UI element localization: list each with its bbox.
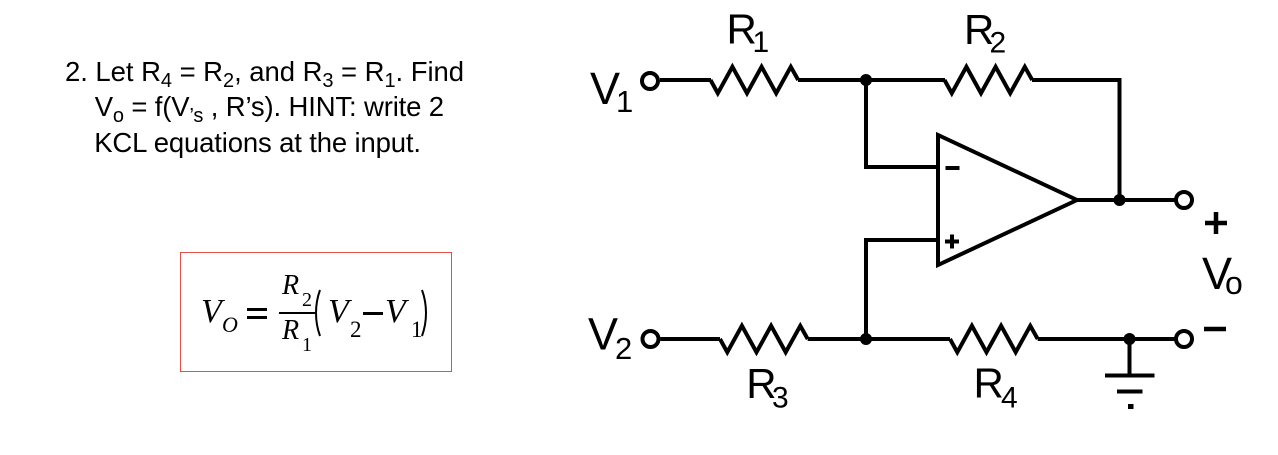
resistor R1	[711, 67, 799, 93]
output terminal Vo	[1176, 192, 1192, 208]
resistor R3	[720, 326, 808, 352]
node A junction dot	[860, 74, 872, 86]
output plus polarity mark	[1205, 212, 1227, 234]
problem statement line 3	[94, 129, 421, 157]
ground node junction dot	[1124, 333, 1136, 345]
wire R4 to ground node	[1038, 337, 1176, 341]
svg-text:o: o	[1225, 265, 1243, 301]
wire V2 terminal to R3	[661, 337, 721, 341]
svg-text:3: 3	[772, 381, 789, 414]
equation equals sign	[247, 308, 267, 311]
svg-text:2: 2	[990, 26, 1007, 59]
wire feedback vertical	[1118, 78, 1122, 200]
equation fraction denominator R1	[282, 317, 299, 345]
svg-text:2: 2	[615, 331, 632, 366]
red answer box	[180, 252, 452, 372]
wire node A down to inverting input	[866, 80, 938, 167]
op-amp minus pin mark	[946, 166, 960, 170]
equation fraction bar	[279, 312, 315, 314]
equation right parenthesis	[420, 289, 428, 337]
svg-text:V: V	[588, 309, 618, 360]
svg-text:R: R	[974, 360, 1004, 407]
resistor R2	[945, 67, 1033, 93]
wire R1 to node A	[798, 78, 866, 82]
wire op-amp output	[1077, 198, 1176, 202]
equation V1	[385, 295, 406, 329]
wire non-inverting input	[866, 240, 938, 339]
svg-text:1: 1	[753, 26, 770, 59]
ground stub	[1128, 339, 1132, 374]
problem statement line 2	[95, 93, 444, 121]
problem statement line 1	[65, 58, 464, 86]
wire node A to R2	[866, 78, 945, 82]
node B junction dot	[860, 333, 872, 345]
wire R3 to node B	[808, 337, 950, 341]
op-amp plus pin mark	[945, 235, 959, 249]
minus output terminal	[1176, 331, 1192, 347]
wire R2 to feedback corner	[1032, 78, 1120, 82]
svg-text:4: 4	[1001, 382, 1018, 415]
equation V2	[328, 295, 349, 329]
output node junction dot	[1114, 194, 1126, 206]
input terminal V2	[643, 331, 659, 347]
equation minus sign	[363, 312, 383, 315]
ground bar 2	[1117, 390, 1143, 394]
equation V_O	[201, 295, 222, 329]
wire V1 terminal to R1	[660, 78, 711, 82]
svg-text:1: 1	[616, 84, 633, 119]
equation left parenthesis	[314, 289, 322, 337]
equation fraction numerator R2	[282, 272, 299, 300]
resistor R4	[950, 326, 1038, 352]
op-amp U1	[938, 135, 1077, 265]
ground dot mark	[1128, 404, 1134, 409]
output minus polarity mark	[1204, 327, 1226, 332]
input terminal V1	[642, 73, 658, 89]
ground bar 1	[1105, 374, 1155, 378]
